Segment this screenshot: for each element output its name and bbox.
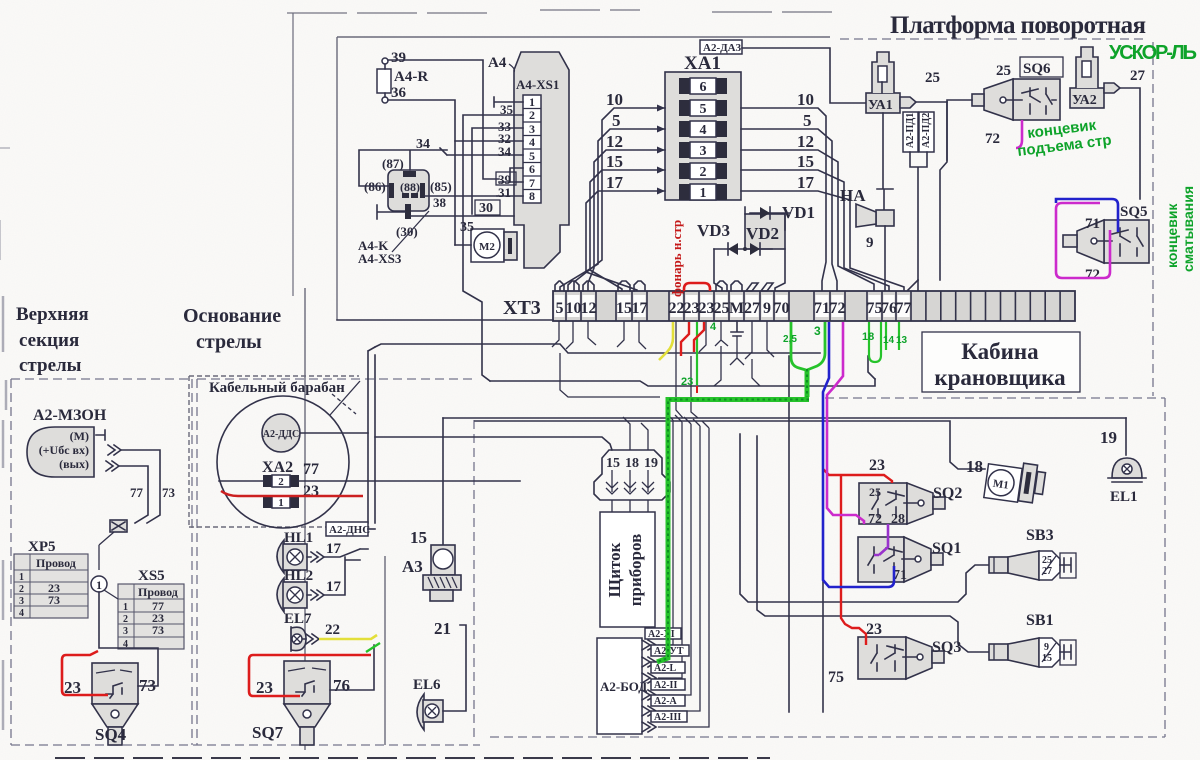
svg-text:1: 1 (278, 497, 284, 509)
svg-text:А2-А: А2-А (654, 696, 678, 707)
upper boom section dashed box (11, 379, 192, 745)
svg-text:приборов: приборов (626, 534, 645, 607)
svg-text:стрелы: стрелы (196, 331, 262, 353)
bottom right (828, 428, 1146, 686)
svg-text:1: 1 (123, 602, 128, 613)
lamp EL1 (1100, 428, 1146, 505)
svg-text:19: 19 (644, 456, 658, 471)
svg-text:34: 34 (498, 144, 512, 159)
svg-text:ХТ3: ХТ3 (503, 297, 541, 319)
A2-BOD box (597, 638, 642, 734)
horn HA (840, 186, 894, 290)
wire 38 from pin 85 (425, 195, 497, 197)
blue wire 71 (823, 322, 894, 587)
cab label box (922, 332, 1080, 392)
svg-text:77: 77 (130, 485, 144, 500)
yellow wire at 22 (659, 322, 673, 360)
svg-text:А2-ДНС: А2-ДНС (329, 524, 370, 536)
svg-text:4: 4 (700, 123, 707, 138)
svg-text:(87): (87) (382, 156, 404, 171)
leads down (714, 207, 785, 291)
VD1 diode (750, 212, 790, 214)
HL1 (277, 530, 368, 573)
svg-text:13: 13 (896, 335, 908, 346)
horizontal trunk H6 long (443, 417, 1126, 419)
scan smudges left edge (3, 296, 6, 730)
red jumper arc over 23-23 (684, 283, 710, 291)
svg-text:М2: М2 (479, 241, 495, 253)
cable drum dashed box (189, 376, 359, 527)
terminal caps (555, 281, 742, 291)
long verticals right (788, 356, 790, 712)
magenta wire 72 (827, 322, 864, 524)
svg-text:23: 23 (684, 300, 700, 317)
svg-text:72: 72 (985, 131, 1000, 147)
horizontal trunk H7 (475, 421, 985, 469)
A2-DNS label (326, 522, 368, 536)
svg-text:17: 17 (797, 173, 815, 192)
XA2 pin 1 (263, 496, 272, 508)
svg-text:14: 14 (883, 335, 895, 346)
magenta bracket SQ5 (1056, 203, 1110, 278)
pin labels (496, 102, 516, 200)
slash marks above 27 and 9 (746, 283, 773, 291)
svg-text:15: 15 (797, 152, 814, 171)
svg-text:18: 18 (862, 331, 874, 343)
svg-text:М1: М1 (992, 478, 1009, 492)
pin stub wires and bundle (494, 97, 523, 107)
svg-text:А2-ДДС: А2-ДДС (263, 429, 300, 440)
purple link SQ2-SQ1 (874, 524, 888, 555)
svg-text:А2-ХІ: А2-ХІ (648, 629, 675, 640)
svg-text:Провод: Провод (138, 585, 178, 599)
green wire dotted texture (657, 369, 809, 662)
svg-text:2: 2 (123, 614, 128, 625)
top scan line (287, 10, 832, 13)
switch SQ3 (828, 621, 961, 686)
svg-text:71: 71 (1085, 216, 1100, 232)
svg-text:7: 7 (529, 176, 535, 190)
svg-text:23: 23 (681, 376, 693, 388)
svg-text:A4: A4 (488, 55, 507, 71)
thin green 23 wire (696, 322, 698, 385)
svg-text:SQ5: SQ5 (1120, 204, 1148, 220)
svg-text:2: 2 (700, 165, 707, 180)
bottom dashed right (490, 736, 1165, 738)
horizontal trunk H4 (490, 379, 875, 386)
svg-text:18: 18 (966, 457, 983, 476)
svg-text:А2-ІІ: А2-ІІ (654, 680, 677, 691)
svg-text:6: 6 (700, 80, 707, 95)
svg-text:VD2: VD2 (746, 224, 779, 243)
limit switch SQ6 (947, 57, 1063, 160)
ground tick at pin 30 (377, 205, 405, 219)
section A4 (358, 50, 569, 381)
svg-text:Провод: Провод (36, 556, 76, 570)
circled 1 (91, 576, 107, 592)
svg-text:15: 15 (616, 300, 632, 317)
svg-text:23: 23 (303, 483, 319, 500)
colored wires (62, 120, 1118, 696)
solenoid UA2 (1070, 47, 1146, 199)
svg-text:фонарь н.стр: фонарь н.стр (669, 220, 684, 297)
svg-text:34: 34 (416, 137, 430, 152)
svg-text:(88): (88) (400, 180, 420, 194)
svg-text:(+Uбс вх): (+Uбс вх) (39, 443, 89, 457)
svg-text:Кабина: Кабина (961, 339, 1039, 364)
horizontal trunk H2 (375, 344, 820, 353)
svg-text:17: 17 (606, 173, 624, 192)
magenta SQ6 tail (1016, 120, 1022, 148)
svg-text:5: 5 (612, 111, 621, 130)
red drops from 23 terminals (681, 322, 689, 356)
svg-text:концевик: концевик (1164, 203, 1180, 268)
svg-text:сматывания: сматывания (1180, 186, 1196, 272)
svg-text:A4-R: A4-R (394, 69, 428, 85)
svg-text:9: 9 (866, 235, 874, 251)
svg-text:23: 23 (869, 457, 885, 474)
VD3 diode pointing left (714, 248, 745, 250)
label boxes A2-PD1 A2-PD2 (903, 112, 918, 152)
wires with 77 73 (119, 450, 160, 523)
svg-text:НА: НА (840, 186, 866, 205)
svg-text:М: М (729, 300, 744, 317)
svg-text:3: 3 (529, 122, 535, 136)
XA2 pin 2 (263, 475, 272, 487)
left wires to cells (560, 108, 665, 291)
blue top SQ5 (1056, 199, 1118, 232)
svg-text:ХА2: ХА2 (262, 459, 293, 476)
svg-text:(М): (М) (70, 429, 89, 443)
red bracket SQ7 + long top (249, 655, 371, 696)
switch SQ2 (859, 457, 962, 527)
svg-text:21: 21 (434, 619, 451, 638)
left wire labels (606, 90, 624, 192)
svg-text:23: 23 (256, 678, 273, 697)
svg-text:А2-ПД1: А2-ПД1 (905, 113, 916, 148)
right border dashed lower (1164, 398, 1166, 737)
thick green trunk wire (657, 369, 809, 662)
M terminal ground below (731, 321, 743, 336)
svg-text:72: 72 (1085, 267, 1100, 283)
octagon 15 18 19 arrows (594, 450, 670, 512)
svg-text:15: 15 (410, 528, 427, 547)
svg-text:SQ7: SQ7 (252, 723, 284, 742)
svg-text:5: 5 (529, 149, 535, 163)
svg-text:SB3: SB3 (1026, 527, 1054, 544)
svg-text:6: 6 (529, 162, 535, 176)
fuse cells 6..1 (679, 78, 727, 201)
cab bottom dashed (825, 397, 1165, 399)
svg-text:1: 1 (529, 95, 535, 109)
svg-text:25: 25 (714, 300, 730, 317)
svg-text:А2-ІІІ: А2-ІІІ (654, 712, 681, 723)
svg-text:17: 17 (632, 300, 648, 317)
svg-text:8: 8 (529, 189, 535, 203)
svg-text:А3: А3 (402, 557, 423, 576)
svg-text:77: 77 (303, 461, 319, 478)
svg-text:73: 73 (152, 623, 164, 637)
svg-text:22: 22 (325, 622, 340, 638)
svg-text:71: 71 (814, 300, 830, 317)
svg-text:стрелы: стрелы (19, 355, 82, 376)
svg-text:28: 28 (891, 512, 905, 527)
svg-text:УА1: УА1 (868, 98, 893, 113)
cable drum (217, 381, 520, 528)
svg-text:1: 1 (19, 572, 24, 583)
svg-text:19: 19 (1100, 428, 1117, 447)
svg-text:SB1: SB1 (1026, 612, 1054, 629)
svg-text:25: 25 (925, 70, 940, 86)
wire: left border to strip (337, 319, 553, 321)
terminal strip XT3 (503, 281, 1075, 336)
leader from drum label (332, 394, 356, 414)
svg-text:15: 15 (606, 456, 620, 471)
bottom dashed left (11, 744, 480, 746)
svg-text:12: 12 (581, 300, 597, 317)
switch SQ1 (858, 537, 961, 583)
svg-text:5: 5 (803, 111, 812, 130)
svg-text:4: 4 (710, 321, 717, 333)
svg-text:УСКОР-ЛЬ: УСКОР-ЛЬ (1109, 42, 1197, 64)
cab region inner border verticals (917, 280, 919, 290)
svg-text:SQ1: SQ1 (932, 540, 961, 557)
motor M1 (966, 457, 1045, 503)
svg-text:36: 36 (391, 85, 407, 101)
red wire to SQ2 SQ3 (823, 469, 892, 645)
svg-text:3: 3 (700, 144, 707, 159)
tick after (M) (96, 430, 105, 440)
svg-text:2: 2 (529, 108, 535, 122)
drop wires from strip terminals (552, 321, 774, 386)
svg-text:72: 72 (830, 300, 846, 317)
svg-text:VD3: VD3 (697, 221, 730, 240)
svg-text:SQ4: SQ4 (95, 725, 127, 744)
svg-text:25: 25 (869, 485, 881, 499)
svg-text:70: 70 (774, 300, 790, 317)
svg-text:5: 5 (556, 300, 564, 317)
svg-text:30: 30 (479, 201, 493, 216)
svg-text:SQ3: SQ3 (932, 639, 961, 656)
svg-text:73: 73 (162, 485, 176, 500)
svg-text:38: 38 (433, 195, 447, 210)
right wire labels (797, 90, 815, 192)
button SB1 (989, 612, 1076, 667)
SQ7 (252, 645, 374, 745)
svg-text:1: 1 (700, 186, 707, 201)
svg-text:5: 5 (700, 102, 707, 117)
right wires from cells (741, 108, 904, 291)
svg-text:73: 73 (48, 593, 60, 607)
svg-text:3: 3 (814, 324, 821, 338)
svg-text:Верхняя: Верхняя (16, 304, 89, 325)
svg-text:A4-XS1: A4-XS1 (516, 77, 559, 92)
svg-text:(85): (85) (430, 179, 452, 194)
red bracket SQ4 (62, 651, 108, 695)
svg-text:18: 18 (625, 456, 639, 471)
wire 34 from relay pin 87 (359, 150, 447, 186)
svg-text:35: 35 (460, 220, 474, 235)
VD2 diode (745, 248, 772, 250)
connector labels (645, 628, 689, 723)
svg-text:А2-ПД2: А2-ПД2 (921, 113, 932, 148)
svg-text:72: 72 (868, 512, 882, 527)
HL2 (277, 557, 360, 612)
red wire XA2 (221, 491, 363, 496)
svg-text:A2-L: A2-L (654, 663, 677, 674)
chevrons (108, 445, 121, 455)
svg-text:12: 12 (797, 132, 814, 151)
right border dashed upper (1152, 42, 1154, 396)
svg-text:4: 4 (19, 608, 24, 619)
svg-text:22: 22 (669, 300, 685, 317)
svg-text:Щиток: Щиток (605, 542, 624, 597)
longer drops to H6 bundle (676, 321, 683, 418)
svg-text:35: 35 (500, 102, 514, 117)
trunk verticals from drum area (368, 347, 375, 523)
svg-text:3: 3 (19, 596, 24, 607)
svg-text:А2-МЗОН: А2-МЗОН (33, 407, 107, 424)
wires from XA2 (219, 433, 520, 481)
octagon riser wires (623, 417, 648, 450)
svg-text:EL7: EL7 (284, 611, 312, 627)
A3 wire (442, 418, 444, 545)
platform box top (337, 36, 830, 38)
dark wire along cab bottom (868, 356, 875, 379)
wire 39 (388, 60, 499, 179)
svg-text:77: 77 (896, 300, 912, 317)
instrument panel box (600, 512, 655, 627)
svg-text:(вых): (вых) (59, 457, 89, 471)
svg-text:17: 17 (326, 579, 342, 595)
svg-text:27: 27 (1130, 68, 1146, 84)
left section titles (16, 304, 89, 376)
XA1 housing (665, 72, 741, 200)
svg-text:2: 2 (19, 584, 24, 595)
svg-text:SQ2: SQ2 (933, 485, 962, 502)
svg-text:УА2: УА2 (1072, 93, 1097, 108)
platform box left edge (336, 37, 338, 320)
svg-text:секция: секция (19, 330, 79, 351)
outer left vertical (292, 13, 294, 296)
svg-text:27: 27 (744, 300, 760, 317)
EL1 wire 19 (1125, 418, 1127, 455)
svg-text:2,5: 2,5 (783, 334, 797, 345)
svg-text:10: 10 (797, 90, 814, 109)
svg-text:23: 23 (866, 621, 882, 638)
svg-text:A4-XS3: A4-XS3 (358, 251, 402, 266)
central divider solid (384, 556, 386, 745)
arrow connector right (900, 97, 916, 108)
svg-text:2: 2 (278, 476, 284, 488)
svg-text:Основание: Основание (183, 305, 281, 327)
svg-text:75: 75 (828, 669, 844, 686)
label box A2-DA3 (700, 40, 742, 54)
svg-text:SQ6: SQ6 (1023, 61, 1051, 77)
svg-text:Платформа поворотная: Платформа поворотная (890, 12, 1146, 39)
platform right components (697, 47, 1149, 291)
svg-text:4: 4 (529, 135, 535, 149)
svg-text:1: 1 (96, 578, 102, 592)
motor M2 (471, 229, 504, 262)
svg-text:3: 3 (123, 626, 128, 637)
EL7 (284, 611, 340, 652)
svg-text:EL6: EL6 (413, 677, 441, 693)
boom base dashed box (197, 379, 474, 745)
svg-text:ХР5: ХР5 (28, 539, 56, 555)
svg-text:23: 23 (699, 300, 715, 317)
relay A4-K (388, 170, 429, 211)
SB wires trunk (740, 434, 989, 602)
svg-text:15: 15 (606, 152, 623, 171)
svg-text:10: 10 (566, 300, 582, 317)
svg-text:10: 10 (606, 90, 623, 109)
A4 tower body (514, 52, 569, 268)
svg-text:Кабельный барабан: Кабельный барабан (209, 380, 345, 396)
diode block VD1 VD2 (697, 203, 815, 291)
bottom scan dashes (55, 757, 770, 759)
limit switch SQ5 (1063, 204, 1149, 283)
button SB3 (989, 527, 1076, 580)
SQ4 (64, 592, 158, 745)
X-connector (110, 520, 127, 532)
green U loops under 75 76 77 (869, 322, 881, 362)
svg-text:EL1: EL1 (1110, 489, 1138, 505)
wire from strip area down to octagon region (560, 353, 660, 397)
yellow EL7 wire (319, 635, 377, 639)
left sections (14, 381, 520, 745)
svg-text:XS5: XS5 (138, 568, 165, 584)
svg-text:39: 39 (391, 50, 406, 66)
resistor A4-R (377, 69, 391, 93)
svg-text:31: 31 (498, 185, 511, 200)
connector chevrons (642, 640, 656, 732)
svg-text:А2-БОД: А2-БОД (600, 679, 647, 694)
link to circle 1 (99, 532, 114, 570)
titles (16, 12, 1197, 396)
svg-text:25: 25 (996, 63, 1011, 79)
pin column A4-XS1 (523, 95, 541, 203)
left wire arrows (657, 105, 665, 195)
svg-text:12: 12 (606, 132, 623, 151)
svg-text:9: 9 (1044, 642, 1049, 653)
wire 36 (388, 100, 455, 245)
svg-text:ХА1: ХА1 (684, 53, 721, 74)
svg-text:17: 17 (326, 541, 342, 557)
svg-text:76: 76 (333, 676, 350, 695)
middle wires (337, 280, 1126, 727)
svg-text:9: 9 (763, 300, 771, 317)
wire 30 (411, 215, 514, 217)
green diagonal near EL7 (366, 643, 380, 652)
А2-БОД riser wires (658, 413, 709, 727)
svg-text:А2-ДА3: А2-ДА3 (703, 42, 742, 54)
bottom middle (402, 450, 689, 734)
solenoid UA1 (866, 52, 947, 280)
svg-text:крановщика: крановщика (934, 365, 1066, 390)
green U merge at 70-71 (791, 322, 825, 370)
connector XA1 (560, 40, 904, 291)
